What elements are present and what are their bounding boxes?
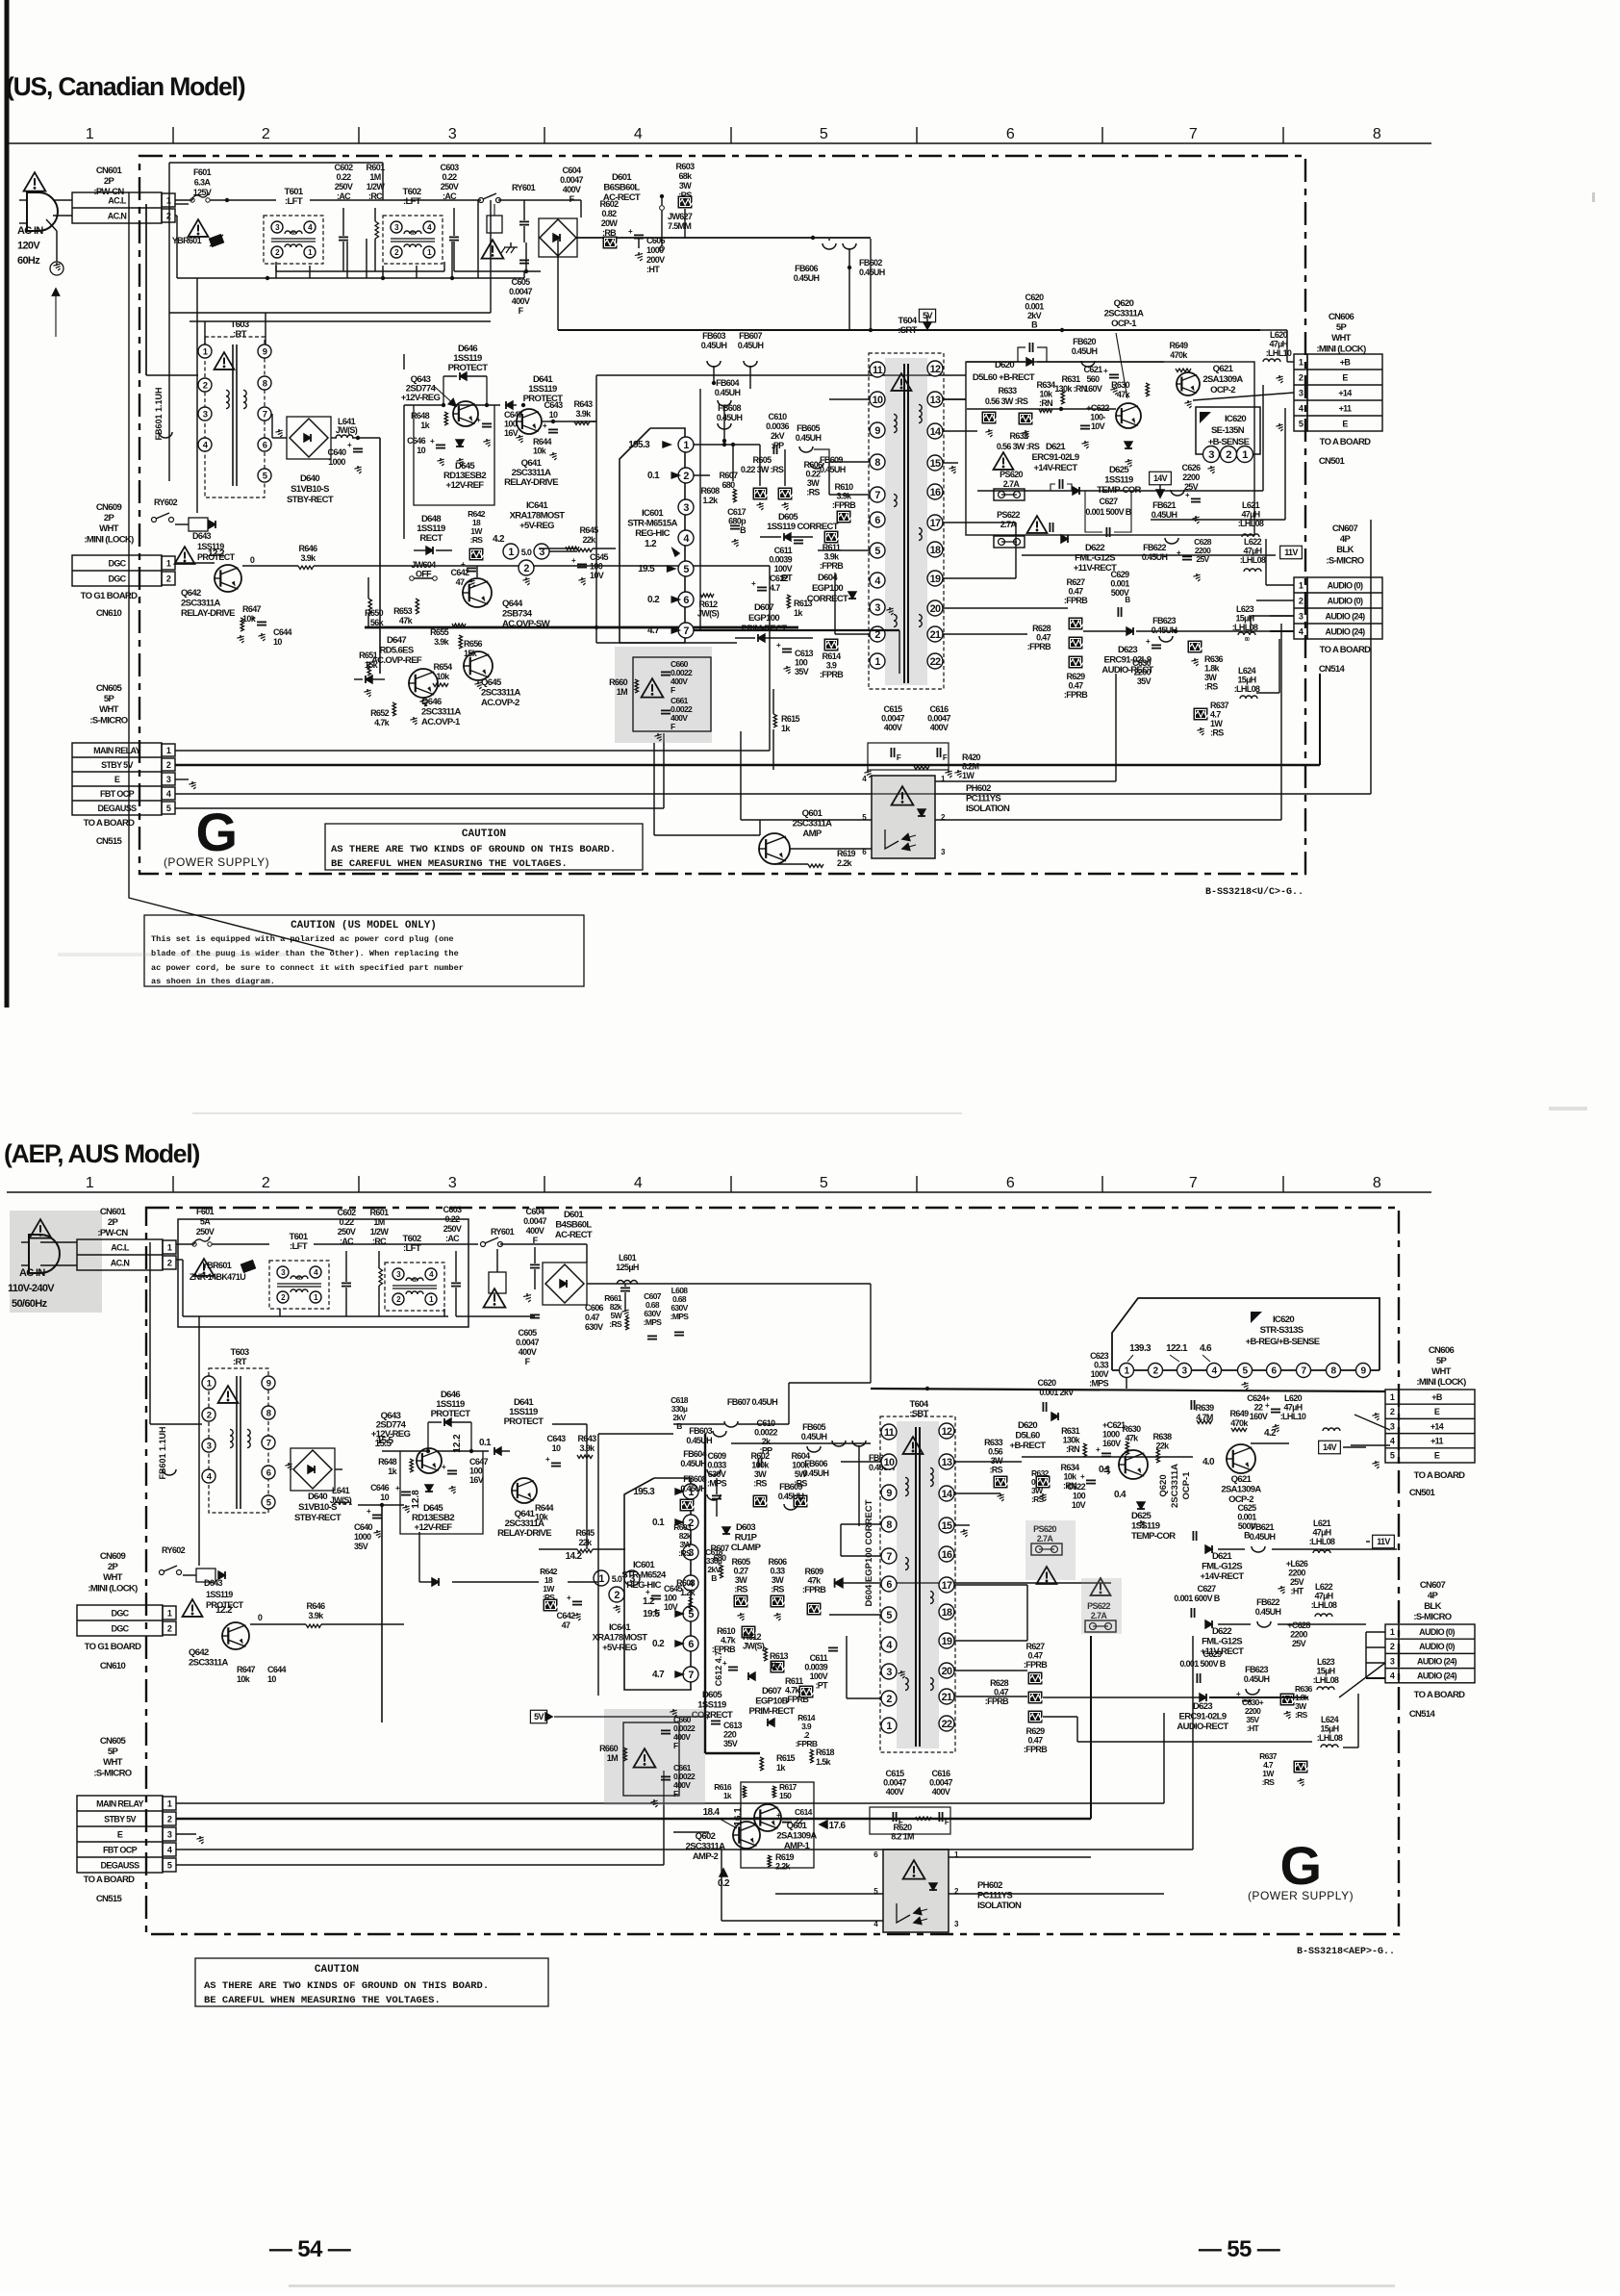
wire audio out 1: [1083, 616, 1294, 633]
transistor Q641 1: [516, 374, 563, 456]
svg-text:7: 7: [1189, 126, 1198, 142]
svg-text:5: 5: [166, 804, 171, 813]
wire ph602 2: [775, 1803, 1164, 1894]
svg-text:CN515: CN515: [96, 1894, 123, 1904]
svg-text:R660: R660: [599, 1744, 619, 1753]
resistor R654 1: [433, 662, 452, 687]
svg-text:R619: R619: [837, 849, 856, 858]
svg-text:5P: 5P: [1436, 1356, 1448, 1366]
diode D607 1: [735, 634, 813, 642]
svg-text:47µH: 47µH: [1312, 1528, 1330, 1538]
svg-text:16: 16: [930, 487, 941, 498]
svg-text:C605: C605: [519, 1328, 538, 1338]
svg-text:0.45UH: 0.45UH: [738, 341, 764, 350]
svg-text:F: F: [671, 685, 675, 695]
warning triangle 12.2 1: [175, 547, 225, 564]
svg-text:C623: C623: [1090, 1351, 1109, 1361]
svg-text:3: 3: [207, 1441, 212, 1451]
svg-text:22k: 22k: [582, 535, 596, 545]
svg-text:47k: 47k: [1117, 390, 1131, 399]
svg-text:160V: 160V: [1102, 1439, 1121, 1448]
svg-text:Q620: Q620: [1158, 1474, 1169, 1496]
label Q620 1: [1104, 298, 1145, 398]
svg-text:250V: 250V: [335, 182, 353, 191]
svg-text:1.2k: 1.2k: [680, 1588, 696, 1597]
svg-text:0.56 3W :RS: 0.56 3W :RS: [985, 396, 1028, 406]
value 0.1 0.4 2: [1099, 1465, 1126, 1500]
svg-text:C604: C604: [563, 166, 582, 175]
svg-text:680: 680: [713, 1553, 726, 1563]
svg-text:C646: C646: [407, 436, 426, 446]
svg-text:CORRECT: CORRECT: [807, 594, 848, 604]
ic IC620 outline 2: [1112, 1298, 1380, 1370]
svg-text:R660: R660: [609, 677, 628, 687]
ic IC601 pins 1: [628, 437, 694, 638]
wire q641 out 1: [542, 420, 596, 423]
svg-text:19: 19: [942, 1636, 952, 1647]
svg-text:110V-240V: 110V-240V: [8, 1283, 55, 1294]
svg-text:8: 8: [1373, 1175, 1381, 1191]
svg-text:47k: 47k: [807, 1576, 822, 1586]
transistor Q643 1: [401, 374, 478, 426]
resistor R632 2: [1031, 1468, 1050, 1504]
connector CN605 1: [72, 683, 175, 847]
svg-text:1: 1: [1390, 1392, 1395, 1402]
svg-text:C626: C626: [1182, 463, 1202, 472]
svg-text:D603: D603: [736, 1522, 755, 1533]
svg-text:oo: oo: [297, 1276, 302, 1282]
svg-text:TO A BOARD: TO A BOARD: [84, 818, 136, 829]
svg-text:0.001 500V B: 0.001 500V B: [1179, 1659, 1226, 1669]
svg-text:E: E: [1342, 373, 1348, 383]
resistor R613 2: [764, 1647, 789, 1671]
label C603 2: [443, 1205, 463, 1243]
gnd cn606 2: [1372, 1413, 1379, 1468]
svg-text:Q645: Q645: [481, 677, 502, 688]
svg-text:0.0039: 0.0039: [804, 1663, 827, 1672]
svg-text:AUDIO (24): AUDIO (24): [1417, 1656, 1457, 1666]
connector CN606 2: [1385, 1345, 1475, 1498]
svg-text:400V: 400V: [519, 1347, 537, 1357]
svg-text:16V: 16V: [469, 1475, 484, 1485]
svg-text:CN605: CN605: [100, 1736, 127, 1747]
svg-text::RS: :RS: [989, 1466, 1002, 1475]
svg-text:WHT: WHT: [99, 704, 119, 715]
svg-text:0.0047: 0.0047: [883, 1778, 906, 1788]
svg-text:19.5: 19.5: [638, 564, 655, 574]
diode D625d 2: [1137, 1502, 1145, 1528]
svg-text:5: 5: [1390, 1451, 1395, 1461]
svg-text:AUDIO (24): AUDIO (24): [1325, 627, 1365, 637]
svg-text:0.22: 0.22: [445, 1214, 461, 1224]
svg-text:4: 4: [1390, 1437, 1395, 1446]
svg-text:10: 10: [549, 410, 558, 420]
svg-text:+5V-REG: +5V-REG: [602, 1643, 637, 1653]
svg-text:2: 2: [262, 126, 270, 142]
transformer T604 1: [869, 316, 944, 689]
cap C604 2: [530, 1247, 540, 1289]
inductor L621 2: [1309, 1518, 1335, 1553]
svg-text:— 55 —: — 55 —: [1199, 2236, 1280, 2262]
transformer T603 2: [202, 1347, 275, 1513]
wire 11v rail 1: [1022, 554, 1276, 556]
wire ic601 top 2: [598, 1434, 673, 1696]
resistor R649 1: [1170, 341, 1191, 372]
svg-text::RT: :RT: [233, 329, 247, 340]
svg-text:C643: C643: [547, 1434, 567, 1443]
bead FB623 2: [1244, 1665, 1270, 1695]
svg-text:100: 100: [469, 1467, 483, 1476]
svg-text:139.3: 139.3: [1129, 1343, 1152, 1354]
resistor R638 2: [1153, 1432, 1173, 1463]
svg-text:2.2k: 2.2k: [775, 1862, 792, 1872]
svg-text:4.7: 4.7: [647, 625, 660, 636]
svg-text:0.1: 0.1: [479, 1438, 492, 1448]
svg-text:1M: 1M: [369, 172, 380, 182]
svg-text:16V: 16V: [504, 428, 519, 438]
svg-text::FPRB: :FPRB: [796, 1739, 818, 1748]
varistor YBR601 2: [190, 1260, 256, 1282]
svg-text:R647: R647: [242, 604, 262, 614]
svg-text:ERC91-02L9: ERC91-02L9: [1179, 1712, 1227, 1722]
svg-text:R628: R628: [1032, 624, 1051, 633]
bead FB609 2: [778, 1482, 804, 1510]
bridge rectifier D640 2: [285, 1448, 335, 1491]
svg-text:14.2: 14.2: [566, 1551, 583, 1562]
svg-text:CN607: CN607: [1332, 523, 1358, 534]
zener D6451 1: [354, 676, 385, 683]
svg-text:12.2: 12.2: [208, 548, 225, 559]
resistor R627 2: [1024, 1642, 1048, 1723]
label PH602 2: [977, 1880, 1022, 1911]
svg-text::RS: :RS: [1295, 1710, 1308, 1720]
svg-text::HT: :HT: [646, 265, 660, 274]
svg-text:12: 12: [942, 1426, 952, 1438]
svg-text:E: E: [1342, 420, 1348, 429]
svg-text:R645: R645: [576, 1528, 595, 1538]
gnd r660 2: [670, 1709, 676, 1717]
14V box 2: [1319, 1441, 1341, 1454]
svg-text:0.45UH: 0.45UH: [1072, 346, 1098, 356]
cap C640 2: [354, 1507, 382, 1551]
svg-text:9: 9: [886, 1488, 892, 1499]
svg-text:0.0039: 0.0039: [769, 555, 792, 565]
svg-text:4P: 4P: [1340, 534, 1352, 545]
svg-text:STBY 5V: STBY 5V: [104, 1815, 136, 1824]
svg-text:C620: C620: [1025, 293, 1045, 302]
svg-text:R610: R610: [835, 482, 854, 492]
svg-text:C610: C610: [757, 1418, 776, 1428]
warning triangle fuse 1: [189, 219, 209, 237]
label C603 1: [441, 163, 460, 201]
svg-text:6.3A: 6.3A: [194, 178, 212, 188]
svg-text:WHT: WHT: [103, 1572, 123, 1583]
svg-text:2: 2: [614, 1590, 620, 1601]
cap C623 2: [1089, 1351, 1195, 1419]
svg-text:0.0047: 0.0047: [560, 175, 583, 185]
bridge rectifier D601 1: [539, 218, 577, 257]
svg-text:6: 6: [1006, 1175, 1015, 1191]
svg-text:1.2: 1.2: [645, 539, 657, 549]
svg-text:D5L60: D5L60: [1015, 1431, 1040, 1441]
svg-text:MAIN RELAY: MAIN RELAY: [93, 746, 140, 755]
svg-text:400V: 400V: [512, 296, 530, 306]
svg-text:0.0047: 0.0047: [523, 1216, 546, 1226]
transformer T602 1: [383, 187, 443, 264]
11V box 2: [1366, 1535, 1394, 1548]
svg-text:C620: C620: [1038, 1378, 1057, 1388]
svg-text::LHL08: :LHL08: [1234, 684, 1260, 694]
resistor R660 1: [609, 677, 638, 697]
svg-text:0.45UH: 0.45UH: [715, 388, 741, 397]
svg-text:4: 4: [634, 126, 643, 142]
svg-text:195.3: 195.3: [633, 1487, 655, 1497]
cap C627 2: [1174, 1584, 1220, 1618]
label D622 1: [1050, 523, 1117, 574]
wire net b 1: [524, 239, 581, 273]
wire ac bus top 1: [175, 198, 581, 217]
svg-text:BLK: BLK: [1336, 545, 1354, 555]
svg-text::RS: :RS: [609, 1319, 622, 1329]
svg-text:1: 1: [207, 1378, 212, 1389]
cap C628 1: [1177, 537, 1212, 581]
wire plug to CN601: [46, 200, 72, 231]
svg-text:TO A BOARD: TO A BOARD: [84, 1875, 136, 1885]
svg-text:R648: R648: [378, 1457, 397, 1467]
svg-text:DEGAUSS: DEGAUSS: [98, 804, 138, 813]
svg-text:6: 6: [886, 1579, 892, 1591]
svg-text:+12V-REF: +12V-REF: [415, 1522, 453, 1533]
svg-text:PS622: PS622: [997, 510, 1020, 520]
svg-text::PW-CN: :PW-CN: [97, 1228, 128, 1238]
svg-text:4.7k: 4.7k: [721, 1636, 737, 1645]
svg-text:C613: C613: [795, 649, 814, 658]
svg-text:— 54 —: — 54 —: [269, 2236, 351, 2262]
svg-text:1/2W: 1/2W: [370, 1227, 390, 1237]
svg-text:D620: D620: [1018, 1420, 1037, 1431]
svg-text::MPS: :MPS: [671, 1312, 690, 1321]
svg-text:PROTECT: PROTECT: [448, 363, 489, 373]
svg-text:0.0047: 0.0047: [929, 1778, 952, 1788]
wire 14vb 2: [1218, 1548, 1397, 1550]
wire 14v rail 1: [977, 385, 1263, 491]
resistor R630 2: [1123, 1424, 1142, 1455]
svg-text:(POWER SUPPLY): (POWER SUPPLY): [1248, 1889, 1354, 1902]
svg-text::AC: :AC: [445, 1234, 460, 1243]
svg-text:L620: L620: [1284, 1393, 1303, 1403]
svg-text:(POWER SUPPLY): (POWER SUPPLY): [164, 855, 269, 869]
svg-text:5: 5: [266, 1497, 271, 1508]
wire t603 left 1: [146, 204, 198, 375]
transistor Q602 2: [686, 1822, 760, 1862]
svg-text:14: 14: [930, 426, 941, 438]
svg-text:AMP-1: AMP-1: [784, 1841, 811, 1851]
svg-text:0.47: 0.47: [1028, 1651, 1044, 1661]
svg-text:7: 7: [886, 1551, 892, 1563]
svg-text:14V: 14V: [1323, 1442, 1337, 1452]
svg-text:35V: 35V: [1137, 676, 1152, 686]
svg-text::LHL08: :LHL08: [1317, 1733, 1343, 1743]
svg-text:0.22: 0.22: [443, 172, 458, 182]
svg-text:12.2: 12.2: [215, 1605, 233, 1616]
resistor R612 1: [697, 594, 720, 619]
svg-text:L621: L621: [1313, 1518, 1331, 1528]
wire q643 bus 1: [404, 403, 500, 539]
svg-text:0.1: 0.1: [1099, 1465, 1111, 1475]
diode D648 2: [419, 1578, 439, 1586]
svg-text:0.0047: 0.0047: [927, 714, 950, 724]
warning triangle ps622 2: [1081, 1578, 1122, 1634]
svg-text:R633: R633: [984, 1438, 1003, 1447]
rect outer right 1: [966, 362, 1254, 535]
wire cn607 2: [1366, 1632, 1385, 1678]
svg-text:0.45UH: 0.45UH: [1152, 510, 1177, 520]
svg-text:0.0036: 0.0036: [766, 421, 789, 431]
svg-text:R646: R646: [307, 1601, 326, 1611]
svg-text:6: 6: [266, 1467, 271, 1478]
svg-text:R629: R629: [1067, 672, 1086, 681]
svg-text:+B-REG/+B-SENSE: +B-REG/+B-SENSE: [1246, 1337, 1320, 1347]
svg-text:C644: C644: [267, 1665, 287, 1674]
svg-text:FB621: FB621: [1152, 500, 1176, 510]
bead FB606 FB602 2: [803, 1441, 895, 1526]
svg-text:CAUTION: CAUTION: [315, 1964, 359, 1976]
svg-text:3: 3: [683, 502, 689, 514]
fuse PS622 1: [994, 510, 1025, 548]
transistor Q621 1: [1176, 364, 1243, 395]
label D625 2: [1131, 1511, 1176, 1542]
svg-text:D607: D607: [754, 602, 773, 613]
svg-text:R609: R609: [805, 1567, 824, 1576]
wire 14v 2: [1022, 1443, 1366, 1457]
svg-text:1: 1: [86, 1175, 94, 1191]
svg-text:R601: R601: [370, 1208, 390, 1217]
cap C621 1: [1084, 365, 1119, 395]
svg-text:1: 1: [886, 1721, 892, 1732]
svg-text:R630: R630: [1111, 380, 1130, 390]
svg-text:OFF: OFF: [416, 570, 432, 579]
svg-text:C603: C603: [441, 163, 460, 172]
svg-text::RS: :RS: [734, 1585, 747, 1594]
svg-text:195.3: 195.3: [628, 440, 650, 450]
page left edge bar: [5, 0, 10, 1008]
cap C642 2: [557, 1594, 582, 1630]
svg-text:L622: L622: [1315, 1582, 1333, 1592]
resistor R613 1: [787, 595, 813, 618]
svg-text:7: 7: [874, 490, 880, 501]
wire ac bus top 2: [176, 1244, 587, 1316]
gray ac area 2: [10, 1211, 102, 1313]
svg-text:0.2: 0.2: [718, 1878, 730, 1889]
svg-text:D620: D620: [995, 360, 1014, 370]
svg-text:Q620: Q620: [1114, 298, 1134, 309]
wire ph602 1: [741, 624, 1281, 864]
label C605 1: [509, 277, 532, 316]
resistor box R611 1: [820, 531, 844, 572]
svg-text:F601: F601: [196, 1207, 215, 1216]
svg-text:FB606: FB606: [795, 264, 818, 273]
connector CN607 1: [1294, 523, 1382, 675]
svg-text:FB607: FB607: [739, 331, 762, 341]
warning triangle RY601 1: [482, 240, 504, 258]
svg-text:+B-RECT: +B-RECT: [1010, 1441, 1047, 1451]
svg-text:AUDIO (24): AUDIO (24): [1325, 612, 1365, 622]
cap C606 2: [585, 1284, 630, 1332]
warning triangle T604 2: [903, 1437, 924, 1454]
resistor R645 1: [539, 525, 616, 552]
label D607 2: [749, 1686, 796, 1726]
wire main relay 2: [176, 1713, 1164, 1803]
svg-text:AC.L: AC.L: [111, 1243, 130, 1253]
svg-text::FPRB: :FPRB: [1024, 1745, 1048, 1754]
svg-text:R614: R614: [823, 651, 842, 661]
svg-text:1: 1: [167, 1609, 172, 1619]
page number 54: [269, 2236, 351, 2262]
svg-text:FML-G12S: FML-G12S: [1075, 553, 1115, 564]
svg-text:10: 10: [273, 637, 282, 647]
wire audio 2: [1043, 1663, 1385, 1748]
caution box 1: [325, 824, 643, 870]
inductor L621 1: [1238, 500, 1264, 537]
svg-text:AS THERE ARE TWO KINDS OF GROU: AS THERE ARE TWO KINDS OF GROUND ON THIS…: [204, 1980, 489, 1992]
svg-text:R605: R605: [753, 455, 772, 465]
fuse PS622 2: [1085, 1601, 1116, 1632]
svg-text:0.45UH: 0.45UH: [859, 268, 885, 277]
cap C614 2: [776, 1807, 813, 1825]
svg-text:15: 15: [930, 458, 941, 470]
warning triangle ps622 1: [1027, 516, 1048, 533]
svg-text:2.7A: 2.7A: [1000, 520, 1018, 529]
connector CN606 1: [1294, 312, 1382, 467]
dashed board outline schematic 1: [139, 156, 1305, 874]
svg-text:D604 EGP100 CORRECT: D604 EGP100 CORRECT: [864, 1499, 874, 1606]
wire long mid 2: [643, 1434, 673, 1549]
svg-text:3: 3: [448, 126, 457, 142]
warning triangle snubber 1: [642, 678, 664, 697]
svg-text:0.45UH: 0.45UH: [796, 433, 822, 443]
svg-text:CLAMP: CLAMP: [731, 1543, 762, 1553]
cap C605 2: [523, 1293, 540, 1318]
svg-text:D621: D621: [1046, 442, 1066, 452]
svg-text:ISOLATION: ISOLATION: [977, 1901, 1022, 1911]
svg-text:R653: R653: [393, 606, 413, 616]
svg-text:22: 22: [1254, 1403, 1263, 1413]
connector CN609 2: [77, 1551, 176, 1671]
svg-text:R634: R634: [1037, 380, 1056, 390]
wire top inner box 1: [175, 203, 189, 205]
svg-text:AC.OVP-REF: AC.OVP-REF: [371, 655, 422, 666]
cap C626 2: [1278, 1559, 1307, 1596]
AC IN label 1: [17, 225, 43, 267]
svg-text:3: 3: [448, 1175, 457, 1191]
label C602 R601 2: [338, 1208, 390, 1246]
svg-text:AS THERE ARE TWO KINDS OF GROU: AS THERE ARE TWO KINDS OF GROUND ON THIS…: [331, 844, 616, 855]
svg-text:0: 0: [250, 555, 255, 565]
svg-text:FB621: FB621: [1251, 1522, 1274, 1532]
transistor Q645 1: [463, 651, 520, 708]
svg-text:100: 100: [795, 658, 808, 668]
svg-text:C603: C603: [443, 1205, 463, 1214]
svg-text:STBY-RECT: STBY-RECT: [294, 1513, 342, 1523]
svg-text:PH602: PH602: [966, 783, 991, 794]
svg-text:1.2k: 1.2k: [703, 496, 720, 505]
resistor R615 1: [773, 689, 800, 770]
svg-text:400V: 400V: [886, 1787, 904, 1797]
fuse PS620 1: [994, 470, 1025, 500]
svg-text:C602: C602: [338, 1208, 357, 1217]
svg-text:15µH: 15µH: [1237, 676, 1255, 685]
svg-text:C616: C616: [930, 704, 949, 714]
